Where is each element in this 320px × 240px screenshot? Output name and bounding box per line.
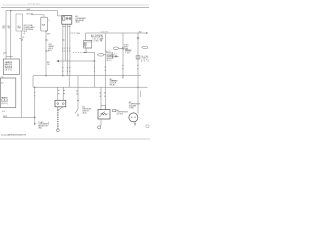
rail arrow [146, 32, 148, 34]
svg-text:BLK: BLK [2, 111, 5, 113]
box D component [0, 78, 16, 108]
wire color tags pin3 [67, 67, 68, 68]
clutch ground circle [98, 126, 101, 129]
svg-text:C4: C4 [22, 37, 24, 39]
x123 stub marks [122, 77, 123, 78]
svg-text:CONN C2: CONN C2 [141, 58, 148, 60]
svg-text:BLK/YEL: BLK/YEL [27, 13, 34, 15]
svg-text:BLK: BLK [2, 28, 5, 30]
svg-text:SWITCH: SWITCH [82, 111, 89, 113]
thermal protector box [84, 40, 92, 48]
relay U1 box [62, 16, 72, 25]
svg-text:2: 2 [22, 39, 23, 41]
wire fuse down [45, 31, 47, 76]
svg-text:15: 15 [49, 20, 51, 22]
switch blade [75, 109, 78, 114]
svg-text:WHT: WHT [27, 9, 31, 11]
small box right corner [146, 125, 149, 127]
x94 wire [94, 53, 96, 88]
node junction bus1 [10, 10, 11, 11]
bus line 1 [6, 10, 57, 12]
relay pins [63, 24, 70, 26]
clutch ground wire [100, 119, 102, 126]
node splice S1 [45, 39, 46, 40]
svg-text:C101: C101 [48, 44, 52, 46]
svg-text:(BLU): (BLU) [82, 113, 87, 115]
wire from box A down [20, 31, 22, 117]
wire below box [85, 48, 87, 53]
bullet connector 1 [113, 47, 119, 50]
bus1 corner down [57, 11, 61, 16]
compressor clutch box [98, 110, 110, 119]
svg-text:COMPRESSOR: COMPRESSOR [116, 112, 128, 114]
svg-text:CLUTCH: CLUTCH [116, 114, 123, 116]
wire color tags pins upper [62, 48, 63, 49]
svg-text:YEL: YEL [47, 64, 50, 66]
mid verticals rail1-rail2 [68, 76, 70, 88]
svg-text:PRESSURE: PRESSURE [82, 109, 91, 111]
ground run vertical [34, 87, 36, 123]
motor drop wire dashed [57, 107, 59, 110]
clutch icon [113, 110, 116, 112]
svg-text:BLU: BLU [18, 26, 21, 28]
svg-text:UNDER: UNDER [48, 46, 55, 48]
rail 2 horizontal [33, 86, 148, 88]
svg-text:(BLK): (BLK) [1, 103, 8, 105]
switch wire x78 [77, 87, 79, 109]
svg-text:WHT: WHT [2, 26, 5, 28]
relay coil [63, 17, 65, 20]
svg-text:YEL: YEL [8, 28, 11, 30]
svg-text:SENSOR: SENSOR [5, 68, 13, 70]
rail left stub [85, 33, 87, 40]
svg-text:2: 2 [48, 124, 49, 126]
svg-text:C555: C555 [3, 52, 7, 54]
relay connector ticks [62, 26, 70, 28]
relay contact [66, 17, 70, 20]
svg-text:BLK: BLK [47, 62, 50, 64]
svg-text:IN-LINE: IN-LINE [141, 56, 148, 58]
box C component [3, 59, 19, 75]
node fuse bottom [45, 31, 46, 32]
incoming arrow left [73, 52, 84, 54]
svg-text:MODULE: MODULE [5, 66, 12, 68]
svg-text:WHT: WHT [47, 34, 50, 36]
svg-text:BLK: BLK [8, 26, 11, 28]
fuse box A [16, 14, 23, 31]
svg-text:TYPE): TYPE) [129, 107, 134, 109]
wire drop x138 [137, 33, 139, 114]
clutch box pins [100, 87, 102, 109]
top border line 1 [2, 4, 149, 6]
svg-text:CLUTCH: CLUTCH [110, 83, 117, 85]
svg-text:BLK/YEL: BLK/YEL [101, 31, 109, 33]
svg-text:GRN/RED: GRN/RED [125, 51, 132, 53]
wire drop x123 [122, 33, 124, 78]
inline connector on x138 [136, 56, 140, 59]
node dot pin1 [62, 39, 63, 40]
svg-text:(BLU): (BLU) [75, 22, 80, 24]
rail1 junction dots [45, 75, 46, 76]
svg-text:YEL: YEL [100, 40, 103, 42]
wire jog connector [6, 55, 13, 57]
wire drop x105 [105, 33, 107, 110]
pin wire 2 to splice arrow [59, 27, 95, 61]
fuse box B 30A [41, 17, 48, 31]
arrow cont mark [71, 32, 78, 34]
svg-text:2.0B: 2.0B [125, 52, 129, 54]
right feed rail [86, 32, 147, 34]
arrow down [34, 123, 36, 125]
bottom border [0, 138, 150, 140]
bus line 2 [31, 14, 44, 16]
fan box pins [58, 87, 63, 100]
compressor bottom dot [134, 123, 135, 124]
tag on x94 wire [93, 60, 94, 61]
splice arrow blob [56, 60, 59, 62]
svg-text:COMPRESSOR: COMPRESSOR [129, 104, 141, 106]
rail1 left corner down [32, 76, 34, 88]
svg-text:WHT: WHT [18, 28, 21, 30]
wire color tags pin1 [62, 67, 63, 68]
wire jog [86, 52, 95, 54]
wire left drop 2 [10, 11, 12, 59]
compressor motor circle [129, 113, 138, 122]
svg-text:CONDENSER: CONDENSER [75, 18, 86, 20]
wire left drop 1 [5, 11, 7, 59]
svg-text:BLK: BLK [100, 38, 103, 40]
bracket line [125, 49, 132, 51]
rail 1 horizontal [33, 75, 141, 77]
motor terminal circle [57, 129, 60, 132]
svg-text:G101: G101 [3, 116, 7, 118]
switch wire tags [76, 90, 77, 91]
svg-text:COMPRESSOR: COMPRESSOR [110, 81, 119, 83]
svg-text:(14P): (14P) [141, 59, 149, 61]
svg-text:4: 4 [48, 122, 49, 124]
clutch pin tags [100, 92, 101, 93]
pin wire 4 [69, 27, 71, 76]
svg-text:WIRE: WIRE [124, 47, 128, 49]
svg-text:(BLK): (BLK) [5, 70, 13, 72]
svg-text:BLU: BLU [112, 57, 117, 59]
clutch coil [101, 113, 108, 115]
bus2 drop to fuse [43, 15, 45, 17]
pin wire 3 [67, 27, 69, 76]
svg-text:PROTECTOR SW: PROTECTOR SW [91, 37, 104, 39]
wire color tags pin4 [69, 67, 70, 68]
bullet connector left-point [97, 54, 103, 56]
svg-text:C12: C12 [112, 54, 117, 56]
top border line 2 [1, 6, 149, 8]
svg-text:(BLU): (BLU) [106, 60, 112, 62]
condenser fan motor box [55, 100, 66, 107]
bullet connector 2 [142, 46, 148, 48]
connector C on wire [20, 38, 22, 40]
pin wire 1 [62, 27, 64, 76]
ground horizontal [3, 116, 35, 118]
